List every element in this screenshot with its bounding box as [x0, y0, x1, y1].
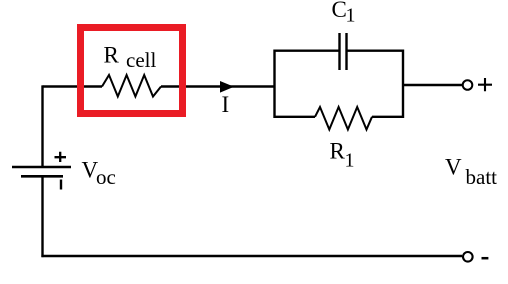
- svg-text:I: I: [222, 92, 230, 117]
- wire: left vertical from node A down to battery: [41, 85, 43, 166]
- RC block: bottom edge right segment from R1: [372, 116, 404, 118]
- wire: top-left horizontal from node A to R_cell: [43, 85, 103, 87]
- battery V_oc: top plate (+): [12, 166, 71, 169]
- RC block: bottom edge left segment to R1: [274, 116, 316, 118]
- svg-text:oc: oc: [96, 165, 116, 189]
- battery V_oc: bottom plate (-): [21, 175, 63, 178]
- RC block: top edge left segment to C1: [274, 50, 340, 52]
- svg-text:cell: cell: [126, 48, 156, 72]
- svg-text:R: R: [330, 139, 346, 164]
- svg-text:R: R: [104, 43, 120, 68]
- RC block: top edge right segment from C1: [347, 50, 404, 52]
- wire: RC block to + terminal: [404, 84, 462, 86]
- highlight box (red) around R_cell: [81, 28, 183, 114]
- capacitor C1: right plate: [345, 33, 347, 70]
- resistor R1 (zigzag body): [315, 107, 372, 130]
- minus sign at output: [482, 257, 489, 260]
- RC block: left edge wire: [273, 50, 275, 119]
- svg-text:batt: batt: [466, 165, 498, 189]
- svg-text:1: 1: [345, 150, 355, 172]
- wire: left vertical from battery down to bottom rail: [41, 176, 43, 257]
- battery plus sign: [55, 152, 67, 162]
- capacitor C1: left plate: [338, 33, 340, 70]
- plus sign at output: [478, 78, 492, 91]
- arrow: current direction I: [220, 81, 234, 93]
- svg-text:1: 1: [346, 5, 356, 27]
- wire: from R_cell to RC block: [161, 85, 274, 87]
- wire: bottom rail: [41, 255, 462, 257]
- resistor R_cell (zigzag body): [102, 75, 161, 97]
- svg-text:V: V: [445, 155, 462, 180]
- battery minus tick (vertical bar): [60, 180, 62, 190]
- node: - output terminal (open circle): [463, 252, 473, 262]
- node: + output terminal (open circle): [463, 80, 473, 90]
- RC block: right edge wire: [402, 50, 404, 119]
